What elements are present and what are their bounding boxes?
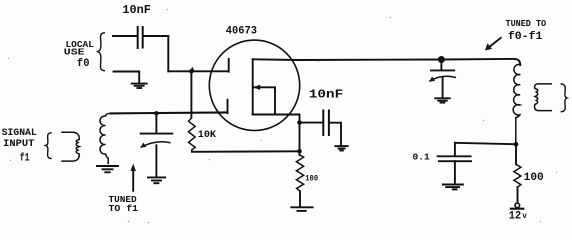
svg-text:12: 12	[509, 210, 521, 222]
ground source resistor	[291, 207, 312, 211]
svg-text:TUNED TO: TUNED TO	[506, 19, 547, 29]
svg-text:10nF: 10nF	[309, 87, 343, 101]
svg-text:f0-f1: f0-f1	[508, 31, 543, 43]
transformer T2 secondary	[535, 84, 552, 111]
wire source node down	[299, 123, 301, 152]
wire gate1 lead	[111, 112, 228, 113]
inductor T2 primary coil	[513, 64, 520, 144]
brace output	[561, 84, 567, 112]
ground VC2	[435, 98, 450, 102]
svg-text:100: 100	[524, 172, 544, 184]
resistor R3 100 (decoupling)	[515, 144, 517, 164]
arrow tuned-to-f1	[132, 167, 134, 191]
brace signal input	[46, 133, 51, 159]
transistor Q1 40673 envelope circle	[209, 40, 299, 130]
label TUNED TO f1	[109, 194, 139, 214]
capacitor C4 0.1	[454, 143, 456, 156]
wire cap to ground stem	[330, 123, 342, 145]
ground VC1	[148, 177, 165, 183]
wire corner down to gate2 line	[167, 36, 169, 71]
wire gate2 lead	[168, 70, 228, 72]
transistor Q1 gate2 bar	[228, 59, 230, 72]
node gate2/10K junction	[189, 69, 194, 74]
transistor Q1 gate1 bar	[227, 100, 229, 113]
label LOCAL USE f0	[64, 39, 94, 70]
wire local osc top stub	[113, 35, 137, 37]
arrow tuned-to-f0-f1	[488, 38, 501, 48]
capacitor C1 10nF plates	[137, 27, 139, 48]
ground local osc	[132, 84, 147, 88]
node source/R wire junction	[297, 149, 302, 154]
svg-text:TO f1: TO f1	[109, 203, 139, 214]
transistor Q1 source lead	[253, 115, 300, 123]
svg-text:v: v	[522, 213, 527, 221]
svg-text:USE: USE	[64, 47, 85, 58]
wire source node to bypass cap	[300, 122, 323, 124]
capacitor VC1 variable (tuned to f1)	[155, 113, 157, 132]
node gate1/tank junction	[154, 111, 159, 116]
capacitor VC2 variable (tuned to f0-f1)	[440, 62, 442, 70]
label TUNED TO f0-f1	[506, 19, 547, 43]
svg-text:INPUT: INPUT	[3, 139, 34, 150]
wire stub down to ground	[138, 72, 140, 84]
node source/bypass junction	[297, 120, 302, 125]
wire local osc bottom stub	[114, 71, 140, 73]
svg-text:100: 100	[305, 175, 318, 184]
inductor L1 tank coil	[100, 113, 111, 163]
node tank bottom junction	[514, 142, 519, 147]
ground tank coil	[97, 166, 118, 172]
label SIGNAL INPUT f1	[2, 128, 37, 164]
node ring drain/tank junction	[439, 57, 444, 62]
svg-text:0.1: 0.1	[413, 152, 430, 163]
svg-text:10K: 10K	[198, 130, 216, 141]
resistor R2 100 (source)	[299, 151, 301, 155]
svg-text:SIGNAL: SIGNAL	[2, 128, 37, 139]
wire corner into transformer	[514, 59, 520, 65]
transistor Q1 channel	[252, 59, 254, 114]
resistor R1 10K	[190, 71, 192, 117]
wire R1 bottom to source node	[192, 150, 300, 153]
svg-text:40673: 40673	[226, 25, 257, 37]
svg-text:10nF: 10nF	[122, 3, 150, 17]
wire cap to corner	[144, 35, 169, 37]
transformer T1 input winding	[62, 132, 79, 161]
svg-text:f1: f1	[20, 152, 30, 164]
svg-text:f0: f0	[77, 58, 90, 70]
ground 0.1 cap	[443, 185, 463, 190]
ground bypass cap	[335, 146, 347, 150]
terminal +12v	[515, 203, 520, 208]
transistor Q1 substrate arrow	[254, 87, 275, 114]
capacitor C3 10nF bypass plates	[322, 111, 324, 136]
wire 0.1 cap to junction	[455, 143, 516, 144]
brace local osc	[98, 33, 105, 71]
wire drain / top line	[253, 59, 514, 60]
